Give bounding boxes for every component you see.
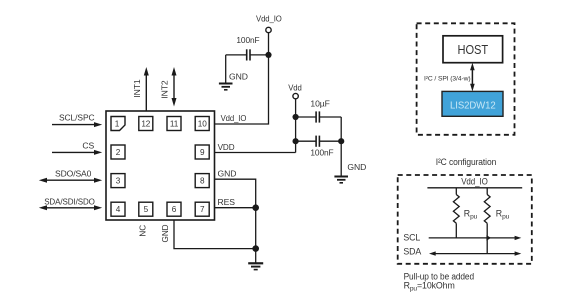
dashed I2C configuration box: [398, 175, 532, 264]
svg-text:100nF: 100nF: [236, 35, 259, 45]
svg-text:SDA: SDA: [403, 247, 421, 257]
pin 4: [111, 202, 125, 216]
wire to bottom ground: [255, 249, 257, 263]
dashed application box: [417, 23, 515, 135]
svg-text:CS: CS: [82, 141, 94, 151]
node junction Vdd/C2: [293, 114, 299, 120]
pin 7: [195, 202, 209, 216]
pin 3: [111, 174, 125, 188]
svg-text:RES: RES: [218, 197, 236, 207]
IC U1 LIS2DW12 package outline: [106, 111, 215, 220]
capacitor C3 100nF: [296, 136, 342, 158]
wire VDD (pin 9 to Vdd net): [215, 152, 296, 154]
svg-text:LIS2DW12: LIS2DW12: [450, 100, 496, 111]
pin 8: [195, 174, 209, 188]
svg-text:INT1: INT1: [132, 79, 142, 98]
ground symbol (right of caps): [334, 162, 366, 183]
wire Vdd_IO net (terminal to pin 10): [215, 33, 269, 124]
signal arrow INT2: [160, 67, 177, 107]
svg-text:VDD: VDD: [218, 142, 235, 152]
node junction C1/Vdd_IO: [265, 52, 271, 58]
wire to ground (right caps): [340, 141, 342, 176]
wire RES (pin 7): [215, 207, 256, 209]
pin 9: [195, 145, 209, 159]
node junction bottom: [252, 245, 259, 252]
wire C2 right lead down: [340, 117, 342, 141]
svg-text:100nF: 100nF: [310, 147, 333, 157]
power terminal Vdd_IO: [256, 14, 282, 33]
resistor Rpu1: [453, 188, 477, 238]
pin 6: [167, 202, 181, 216]
svg-text:8: 8: [200, 177, 205, 186]
pin 10: [195, 117, 209, 131]
svg-text:10: 10: [198, 119, 207, 128]
svg-text:10µF: 10µF: [310, 98, 329, 108]
signal arrow CS: [52, 141, 102, 155]
wire Vdd_IO rail: [427, 187, 522, 189]
resistor Rpu2: [484, 188, 509, 254]
ground symbol (top left of C1): [219, 72, 248, 90]
svg-text:Vdd: Vdd: [288, 83, 302, 93]
signal arrow SDA/SDI/SDO: [39, 196, 102, 210]
svg-text:6: 6: [172, 205, 177, 214]
capacitor C2 10uF: [296, 98, 342, 122]
svg-text:3: 3: [116, 177, 121, 186]
svg-text:4: 4: [116, 205, 121, 214]
pin 11: [167, 117, 181, 131]
HOST box: [443, 36, 503, 63]
svg-text:GND: GND: [229, 72, 248, 82]
node junction C2/C3: [338, 138, 344, 144]
pin 2: [111, 145, 125, 159]
I2C/SPI arrow between HOST and LIS2DW12: [470, 63, 475, 92]
svg-text:7: 7: [200, 205, 205, 214]
svg-text:GND: GND: [218, 169, 237, 179]
svg-text:I²C configuration: I²C configuration: [436, 157, 497, 167]
pin 5: [139, 202, 153, 216]
power terminal Vdd: [288, 83, 302, 99]
wire GND (pin 8): [215, 179, 256, 248]
svg-text:NC: NC: [139, 225, 148, 237]
svg-text:5: 5: [144, 205, 149, 214]
svg-text:GND: GND: [347, 162, 366, 172]
junction jog arrow on Rpu2/SCL crossing: [486, 235, 491, 241]
svg-text:9: 9: [200, 148, 205, 157]
svg-text:SCL/SPC: SCL/SPC: [59, 113, 95, 123]
svg-text:11: 11: [170, 119, 179, 128]
svg-text:Vdd_IO: Vdd_IO: [256, 14, 282, 24]
svg-text:1: 1: [115, 119, 120, 128]
wire SCL: [403, 232, 521, 242]
svg-text:SDO/SA0: SDO/SA0: [55, 169, 92, 179]
signal arrow SCL/SPC: [52, 113, 102, 128]
wire SDA: [403, 247, 521, 257]
wire C1 to ground: [225, 55, 227, 83]
LIS2DW12 blue box: [442, 91, 503, 116]
capacitor C1 100nF: [226, 35, 269, 60]
svg-text:2: 2: [116, 148, 121, 157]
pin 1: [111, 117, 125, 131]
ground symbol (bottom): [248, 263, 263, 269]
svg-text:I²C / SPI (3/4-w): I²C / SPI (3/4-w): [424, 75, 471, 82]
svg-text:Vdd_IO: Vdd_IO: [221, 113, 247, 123]
svg-text:SCL: SCL: [403, 232, 420, 242]
node junction Vdd/C3: [293, 138, 299, 144]
signal arrow SDO/SA0: [39, 169, 102, 183]
node junction RES/GND: [252, 204, 259, 211]
svg-text:HOST: HOST: [458, 42, 489, 57]
svg-text:12: 12: [141, 119, 150, 128]
pin 12: [139, 117, 153, 131]
svg-text:SDA/SDI/SDO: SDA/SDI/SDO: [44, 196, 95, 206]
svg-text:Vdd_IO: Vdd_IO: [461, 176, 488, 186]
signal arrow INT1: [132, 67, 149, 111]
wire bottom GND (pin 6 pad): [174, 220, 256, 249]
wire Vdd net vertical: [295, 99, 297, 153]
svg-text:INT2: INT2: [160, 80, 170, 99]
svg-text:GND: GND: [161, 224, 170, 242]
